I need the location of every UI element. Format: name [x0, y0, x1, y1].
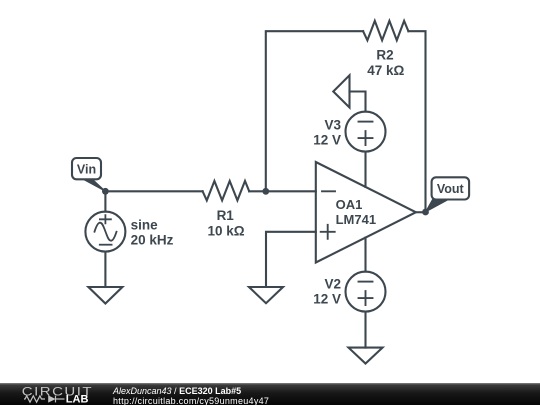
voltage source V3 [346, 112, 386, 152]
svg-text:LAB: LAB [66, 393, 89, 405]
wire: Vin node to R1 [105, 190, 202, 192]
svg-text:Vout: Vout [437, 182, 465, 196]
svg-text:OA1: OA1 [336, 197, 363, 212]
svg-text:R1: R1 [217, 208, 235, 223]
supply arrow (negative rail flag) [333, 75, 349, 107]
svg-text:V2: V2 [324, 277, 341, 292]
voltage source V2 [346, 272, 386, 312]
node label Vout [426, 177, 470, 212]
svg-text:20 kHz: 20 kHz [131, 233, 174, 248]
ground (under sine source) [88, 287, 122, 304]
footer credits [113, 386, 241, 396]
node dot: Vin node [102, 188, 109, 195]
svg-text:sine: sine [131, 217, 159, 232]
svg-text:LM741: LM741 [336, 212, 376, 227]
footer bar [0, 383, 540, 405]
resistor R1 [203, 181, 250, 200]
wire: op-amp negative supply pin to V2 [364, 238, 366, 272]
wire: V2 to ground [364, 312, 366, 348]
wire: Vin node down to sine source [104, 191, 106, 211]
wire: non-inverting input to ground riser [266, 232, 316, 287]
svg-text:V3: V3 [324, 117, 341, 132]
svg-text:Vin: Vin [77, 162, 96, 176]
wire: node B to op-amp inverting input [266, 190, 316, 192]
resistor R2 [363, 21, 408, 40]
svg-text:10 kΩ: 10 kΩ [207, 223, 244, 238]
node label Vin [72, 158, 105, 191]
ground (under V2) [349, 348, 383, 364]
svg-text:12 V: 12 V [313, 292, 341, 307]
ground (non-inverting input) [249, 287, 283, 303]
wire: V3 to op-amp positive supply pin [364, 152, 366, 187]
wire: sine source to ground [104, 252, 106, 287]
svg-text:12 V: 12 V [313, 132, 341, 147]
wire: R1 to node B [249, 190, 266, 192]
wire: R2 to output riser, down to Vout node [408, 31, 425, 212]
node dot: Vout node [422, 209, 429, 216]
CircuitLab logo [0, 383, 100, 405]
node dot: junction of R1, R2, inverting input [262, 188, 269, 195]
voltage source V1 (sine) [85, 212, 125, 252]
wire: feedback riser from node B up and across to R2 [266, 31, 363, 191]
wire: supply arrow to V3 [350, 92, 366, 112]
wire: op-amp output to Vout node [416, 211, 426, 213]
svg-text:R2: R2 [376, 48, 393, 63]
op-amp OA1 [316, 162, 416, 263]
svg-text:47 kΩ: 47 kΩ [367, 63, 404, 78]
